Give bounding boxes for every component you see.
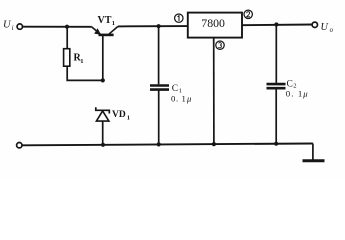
- svg-text:VT: VT: [98, 15, 112, 26]
- zener diode VD1: [96, 107, 110, 144]
- wire bottom rail: [22, 144, 313, 146]
- svg-text:0. 1: 0. 1: [286, 88, 304, 98]
- label C1 0.1u: [171, 84, 192, 103]
- regulator IC U1 7800: [188, 13, 242, 38]
- wire top rail right: [242, 24, 313, 27]
- terminal output: [312, 22, 317, 27]
- pin 3: [216, 41, 224, 49]
- resistor R1: [64, 49, 70, 66]
- label VD1: [112, 110, 130, 121]
- node C2 top junction: [274, 22, 278, 26]
- label R1: [74, 53, 84, 65]
- node zener bottom junction: [101, 143, 105, 147]
- wire R1 bottom lead: [67, 66, 103, 80]
- capacitor C2: [267, 25, 286, 144]
- svg-text:0. 1: 0. 1: [171, 93, 186, 103]
- ground: [303, 144, 325, 161]
- capacitor C1: [150, 26, 169, 144]
- terminal input +: [17, 24, 22, 29]
- wire pin3 ground lead: [213, 38, 215, 144]
- node C2 bottom junction: [274, 142, 278, 146]
- label VT1: [98, 15, 116, 27]
- node pin3 bottom junction: [212, 142, 216, 146]
- svg-text:7800: 7800: [201, 16, 225, 30]
- label C2 0.1u: [286, 79, 309, 98]
- node base junction: [101, 78, 105, 82]
- wire R1 top lead: [66, 27, 68, 49]
- svg-text:μ: μ: [186, 93, 192, 103]
- node C1 top junction: [157, 24, 161, 28]
- wire top rail left: [23, 26, 92, 28]
- node R1 top junction: [65, 25, 69, 29]
- svg-text:1: 1: [80, 58, 83, 65]
- svg-text:VD: VD: [112, 110, 126, 120]
- pin 1: [175, 14, 183, 22]
- wire top rail mid: [118, 25, 188, 27]
- svg-text:1: 1: [112, 20, 115, 27]
- svg-text:1: 1: [127, 114, 130, 121]
- svg-text:U: U: [321, 22, 329, 33]
- svg-text:i: i: [12, 24, 14, 32]
- svg-text:μ: μ: [302, 88, 308, 98]
- label Ui: [3, 20, 14, 33]
- label Uo: [321, 22, 334, 34]
- node C1 bottom junction: [157, 142, 161, 146]
- svg-text:o: o: [330, 27, 334, 34]
- transistor VT1: [92, 26, 119, 80]
- terminal input -: [17, 143, 22, 148]
- pin 2: [244, 10, 252, 18]
